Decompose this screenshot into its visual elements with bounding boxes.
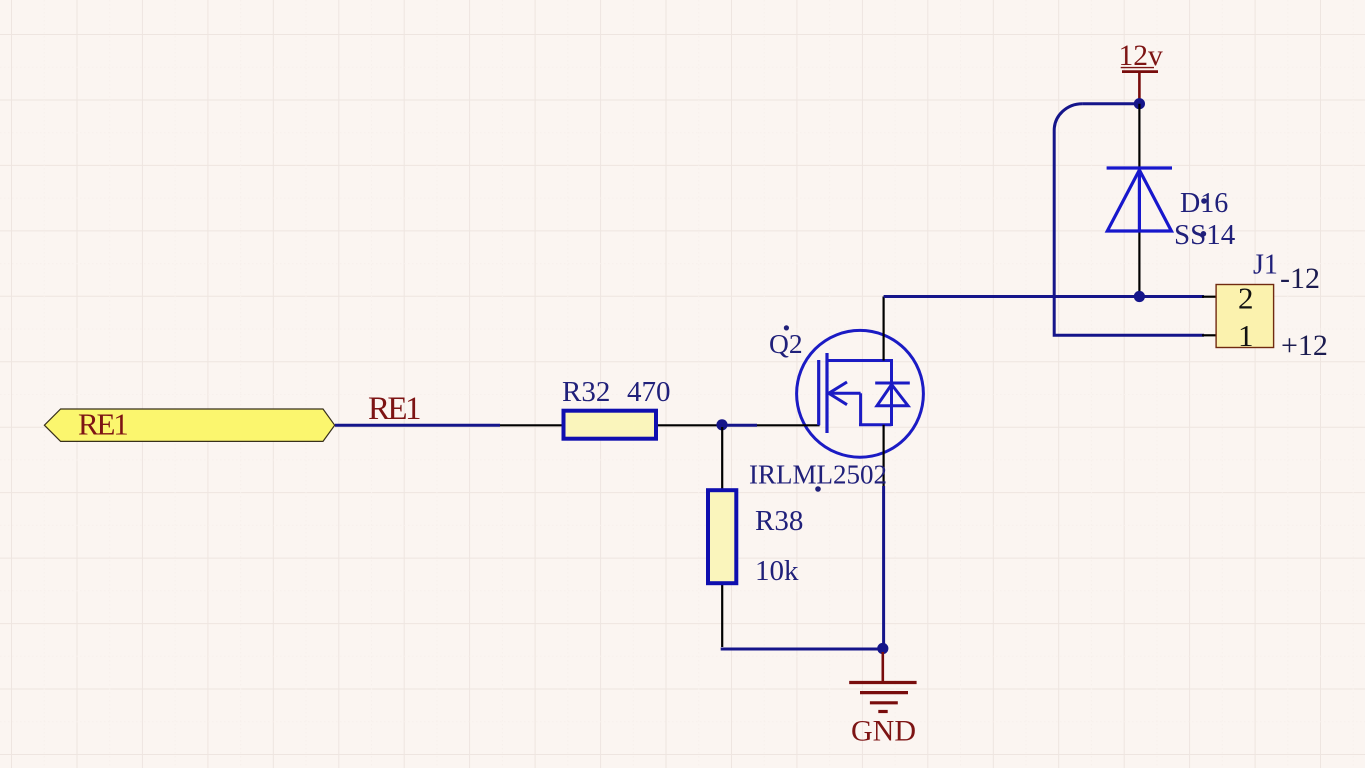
wire 12v to D16 top (junction horizontal): [1082, 102, 1139, 105]
marker dot D16: [1201, 198, 1207, 204]
svg-text:IRLML2502: IRLML2502: [749, 460, 887, 490]
wire R38 to GND node: [721, 648, 883, 651]
svg-text:RE1: RE1: [78, 407, 127, 442]
svg-text:RE1: RE1: [368, 391, 420, 427]
marker dot IRLML2502: [815, 486, 821, 492]
svg-text:Q2: Q2: [769, 328, 803, 359]
wire Q2 source down: [882, 486, 885, 649]
transistor Q2: [757, 297, 923, 489]
wire Q2 drain to J1 pin 2: [884, 295, 1204, 298]
connector J1: [1202, 285, 1274, 348]
svg-text:R38: R38: [755, 505, 803, 537]
marker dot SS14: [1201, 231, 1207, 237]
svg-text:GND: GND: [851, 715, 916, 748]
svg-text:470: 470: [627, 376, 671, 408]
svg-text:J1: J1: [1253, 249, 1278, 280]
junction D16 / J1 pin 2: [1134, 291, 1145, 302]
wire 12v to J1 pin 1 (arc corner, vertical, bottom run): [1054, 104, 1204, 336]
power port 12v: [1119, 40, 1164, 100]
resistor R38: [708, 427, 736, 647]
port RE1: [44, 407, 334, 442]
junction 12v: [1134, 98, 1145, 109]
svg-text:-12: -12: [1280, 262, 1320, 295]
junction GND node: [877, 643, 888, 654]
resistor R32: [500, 411, 722, 439]
wire RE1 port to R32: [335, 424, 500, 427]
svg-text:1: 1: [1238, 318, 1254, 353]
junction node gate/R38: [716, 419, 727, 430]
svg-text:10k: 10k: [755, 555, 799, 587]
svg-text:2: 2: [1238, 281, 1254, 316]
marker dot Q2: [784, 325, 789, 330]
wire R32 to Q2 gate: [722, 424, 757, 427]
ground GND: [849, 652, 916, 748]
diode D16: [1107, 104, 1172, 297]
svg-text:+12: +12: [1281, 329, 1328, 362]
svg-text:R32: R32: [562, 376, 610, 408]
